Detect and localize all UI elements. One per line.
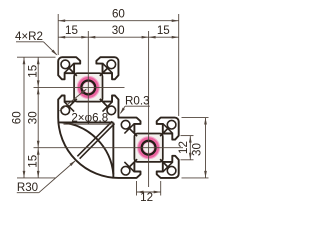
leader R0.3 — [121, 106, 126, 113]
dimension 12 bottom — [137, 191, 161, 193]
centerline BR vertical — [148, 31, 150, 187]
extension line slot left bottom — [136, 181, 138, 196]
centerline BR horizontal — [34, 147, 184, 149]
centerline TL horizontal — [34, 86, 125, 88]
leader 2xphi6.8 — [60, 89, 86, 111]
centerline TL vertical — [87, 31, 89, 122]
profile outer outline with T-slots — [58, 57, 179, 178]
BR center hole phi6.8 — [142, 141, 156, 155]
svg-text:15: 15 — [27, 65, 40, 78]
BR module corner hole — [121, 120, 130, 129]
TL module corner chord/web — [103, 102, 113, 112]
svg-text:30: 30 — [27, 111, 40, 124]
wire TL module bottom closing wall — [59, 121, 114, 123]
svg-text:60: 60 — [11, 111, 24, 124]
TL module corner chord/web — [64, 63, 74, 73]
extension line BR bottom right — [182, 177, 209, 179]
svg-text:60: 60 — [112, 8, 125, 21]
aluminum extrusion profile drawing 60x60 R30 — [0, 0, 218, 211]
TL module corner hole — [61, 60, 70, 69]
dimension 60 left — [23, 57, 25, 178]
leader shelf R0.3 — [125, 105, 150, 107]
leader R30 — [39, 161, 75, 193]
BR module corner chord/web — [163, 124, 173, 134]
arrow 60 left — [58, 19, 65, 22]
TL module corner chord/web — [64, 102, 74, 112]
dimension 30 right — [205, 118, 207, 178]
svg-text:2×φ6.8: 2×φ6.8 — [71, 112, 108, 125]
TL module corner hole — [61, 106, 70, 115]
extension line bottom left edge — [17, 177, 56, 179]
BR module corner hole — [167, 120, 176, 129]
TL center hole phi6.8 — [81, 81, 95, 95]
BR module corner chord/web — [124, 162, 134, 172]
dimension 60 top — [58, 20, 179, 22]
dimension 15/30/15 left — [37, 57, 39, 178]
extension line slot bottom right — [181, 159, 194, 161]
svg-text:12: 12 — [140, 191, 153, 204]
BR module corner hole — [167, 166, 176, 175]
extension line right top — [178, 14, 180, 116]
wire BR module left closing wall — [112, 122, 114, 177]
TL center hole phi6.8 highlight — [80, 79, 97, 96]
TL module core — [74, 73, 102, 101]
extension line left top — [57, 14, 59, 55]
svg-text:4×R2: 4×R2 — [15, 30, 43, 43]
TL module corner chord/web — [103, 63, 113, 73]
svg-text:30: 30 — [112, 24, 125, 37]
BR module corner chord/web — [124, 124, 134, 134]
dimension 15/30/15 top — [58, 36, 179, 38]
svg-text:12: 12 — [177, 141, 190, 154]
arrow 60 right — [172, 19, 179, 22]
svg-text:30: 30 — [191, 143, 204, 156]
svg-text:R30: R30 — [17, 181, 38, 194]
extension line slot top right — [181, 135, 194, 137]
leader 4xR2 — [44, 42, 57, 55]
TL module corner hole — [107, 60, 116, 69]
leader shelf R30 — [17, 192, 39, 194]
svg-text:15: 15 — [157, 24, 170, 37]
dimension 12 right — [189, 136, 191, 160]
leader shelf 2xphi6.8 — [64, 123, 112, 125]
TL module corner hole — [107, 106, 116, 115]
BR center hole phi6.8 highlight — [140, 139, 157, 156]
BR module core — [134, 134, 162, 162]
svg-text:15: 15 — [27, 155, 40, 168]
inner arc wall (R30 tube inner) — [62, 122, 114, 174]
extension line top left edge — [17, 56, 56, 58]
leader shelf 4xR2 — [16, 41, 44, 43]
svg-text:15: 15 — [65, 24, 78, 37]
BR module corner chord/web — [163, 162, 173, 172]
extension line slot right bottom — [160, 181, 162, 196]
BR module corner hole — [121, 166, 130, 175]
svg-text:R0.3: R0.3 — [125, 95, 150, 108]
extension line BR top right — [182, 117, 209, 119]
radial web to arc — [77, 121, 112, 156]
